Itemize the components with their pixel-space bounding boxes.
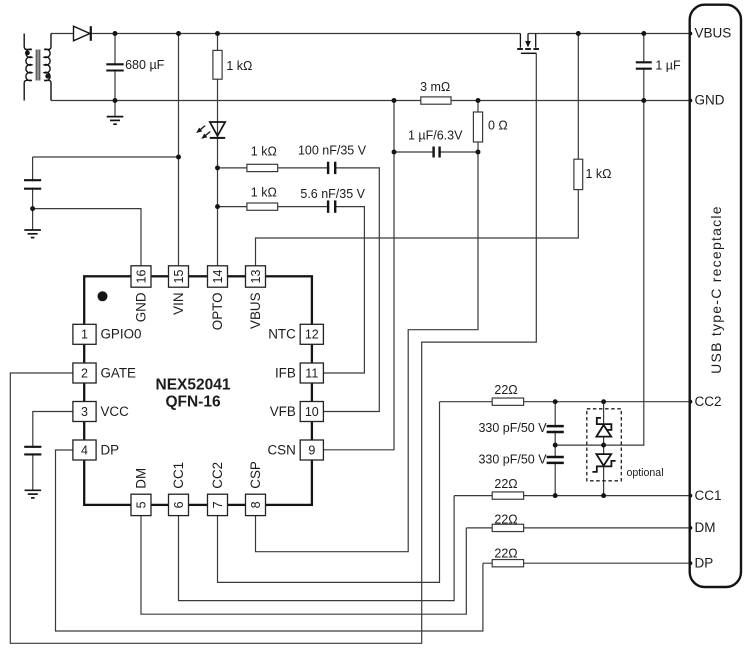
svg-text:680 µF: 680 µF [125,58,165,72]
svg-text:VBUS: VBUS [695,26,732,41]
svg-text:QFN-16: QFN-16 [165,394,221,411]
svg-text:22Ω: 22Ω [494,383,517,397]
svg-text:6: 6 [172,501,186,508]
svg-text:CC2: CC2 [695,394,722,409]
svg-text:8: 8 [249,501,263,508]
svg-text:5: 5 [134,501,148,508]
svg-text:GND: GND [695,93,725,108]
svg-text:CC2: CC2 [210,462,225,489]
svg-text:1 kΩ: 1 kΩ [226,59,252,73]
svg-text:1 µF/6.3V: 1 µF/6.3V [408,129,463,143]
svg-text:optional: optional [626,467,663,479]
svg-text:22Ω: 22Ω [494,477,517,491]
svg-text:7: 7 [211,501,225,508]
svg-text:NTC: NTC [268,327,296,342]
svg-text:OPTO: OPTO [210,293,225,331]
svg-text:USB type-C receptacle: USB type-C receptacle [708,205,724,374]
svg-text:330 pF/50 V: 330 pF/50 V [478,421,547,435]
svg-text:12: 12 [305,328,319,342]
svg-text:0 Ω: 0 Ω [488,119,508,133]
svg-text:14: 14 [211,270,225,284]
svg-text:VCC: VCC [101,404,130,419]
svg-text:GND: GND [134,292,149,322]
svg-text:9: 9 [308,443,315,457]
svg-text:DP: DP [695,555,714,570]
svg-text:15: 15 [172,270,186,284]
svg-text:1 kΩ: 1 kΩ [251,144,277,158]
svg-text:2: 2 [81,366,88,380]
svg-text:DM: DM [134,468,149,489]
svg-text:CSN: CSN [268,442,296,457]
svg-text:CC1: CC1 [695,488,722,503]
svg-text:DM: DM [695,520,716,535]
svg-text:1 kΩ: 1 kΩ [251,185,277,199]
svg-text:16: 16 [134,270,148,284]
svg-text:VFB: VFB [270,404,296,419]
svg-text:VIN: VIN [171,293,186,315]
svg-text:CC1: CC1 [171,462,186,489]
svg-text:5.6 nF/35 V: 5.6 nF/35 V [300,187,365,201]
svg-text:GPIO0: GPIO0 [101,327,142,342]
svg-text:3: 3 [81,405,88,419]
svg-text:1 µF: 1 µF [655,59,681,73]
svg-text:330 pF/50 V: 330 pF/50 V [478,453,547,467]
svg-text:1: 1 [81,328,88,342]
svg-text:DP: DP [101,442,120,457]
svg-text:IFB: IFB [275,365,296,380]
svg-text:GATE: GATE [101,365,137,380]
svg-text:1 kΩ: 1 kΩ [585,167,611,181]
svg-text:10: 10 [305,405,319,419]
svg-text:22Ω: 22Ω [494,546,517,560]
svg-text:CSP: CSP [248,461,263,489]
svg-text:11: 11 [305,366,318,380]
svg-text:22Ω: 22Ω [494,513,517,527]
svg-text:NEX52041: NEX52041 [156,376,231,393]
svg-text:13: 13 [249,270,263,284]
svg-text:4: 4 [81,443,88,457]
svg-text:VBUS: VBUS [248,292,263,329]
svg-text:3 mΩ: 3 mΩ [420,80,450,94]
svg-text:100 nF/35 V: 100 nF/35 V [298,144,367,158]
